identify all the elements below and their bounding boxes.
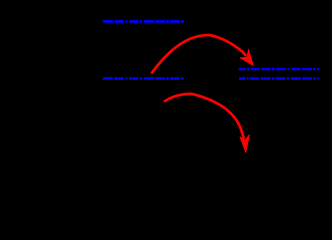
blue text line 3 (right upper) — [239, 68, 319, 70]
blue text line 1 (top center) — [103, 20, 184, 23]
blue text line 4 (right lower) — [239, 77, 319, 80]
red curved arrow 2 (lower arc, pointing down) — [164, 94, 250, 153]
blue text line 2 (middle left) — [103, 77, 184, 80]
red curved arrow 1 (upper arc, from middle-left text to right text) — [151, 35, 253, 73]
